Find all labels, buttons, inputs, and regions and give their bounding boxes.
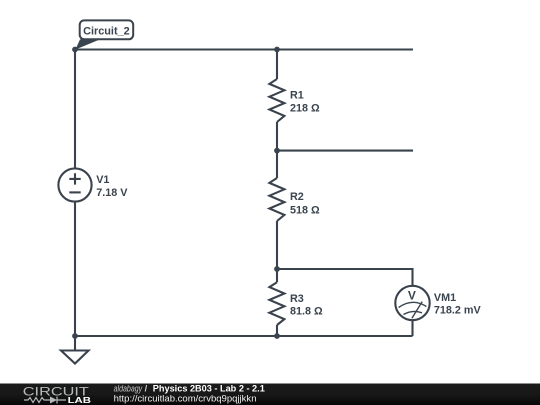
- footer bar: [0, 384, 540, 405]
- node R3 bottom: [274, 333, 280, 339]
- node top-left: [72, 47, 78, 53]
- callout Circuit_2 box: [80, 20, 134, 39]
- wire row2 rail: [277, 150, 413, 152]
- svg-text:V1: V1: [96, 174, 109, 186]
- svg-text:7.18 V: 7.18 V: [96, 187, 128, 199]
- wire R2-R3 link: [276, 221, 278, 282]
- V1 plus sign: [69, 173, 80, 184]
- wire left vertical lower (V1 bottom to ground rail): [74, 202, 76, 336]
- junction node dots: [72, 47, 280, 339]
- svg-text:718.2 mV: 718.2 mV: [434, 305, 482, 317]
- svg-text:Physics 2B03 - Lab 2 - 2.1: Physics 2B03 - Lab 2 - 2.1: [153, 384, 265, 394]
- footer logo diode triangle: [50, 397, 57, 404]
- wire R1 top lead: [276, 50, 278, 80]
- resistor R1: [269, 79, 284, 122]
- svg-text:V: V: [408, 289, 416, 303]
- svg-text:R3: R3: [290, 293, 304, 305]
- wire R3 bottom lead: [276, 325, 278, 336]
- node R1 top: [274, 47, 280, 53]
- VM1 needle: [412, 302, 422, 319]
- VM1 meter scale arcs: [399, 302, 427, 319]
- callout Circuit_2 tail: [76, 39, 101, 49]
- wire row3 to voltmeter: [277, 269, 413, 286]
- svg-text:VM1: VM1: [434, 292, 456, 304]
- voltmeter VM1 circle: [395, 286, 429, 320]
- wire R1-R2 link: [276, 122, 278, 178]
- footer logo resistor-diode line: [24, 397, 66, 404]
- V1 minus sign: [69, 191, 80, 193]
- svg-text:LAB: LAB: [68, 395, 91, 405]
- svg-text:R2: R2: [290, 191, 304, 203]
- voltage source V1 circle: [58, 168, 91, 201]
- wire left vertical upper (node A to V1 top): [74, 50, 76, 169]
- svg-text:/: /: [145, 384, 148, 394]
- svg-text:R1: R1: [290, 89, 304, 101]
- node R1-R2: [274, 148, 280, 154]
- svg-text:Circuit_2: Circuit_2: [83, 25, 130, 37]
- wire bottom rail: [75, 335, 413, 337]
- wire voltmeter bottom lead: [411, 320, 413, 336]
- resistor R3: [269, 282, 284, 325]
- node R2-R3: [274, 266, 280, 272]
- svg-text:http://circuitlab.com/crvbq9pq: http://circuitlab.com/crvbq9pqjjkkn: [114, 393, 257, 403]
- ground symbol: [61, 336, 89, 364]
- svg-text:518 Ω: 518 Ω: [290, 205, 320, 217]
- wire top rail: [75, 48, 413, 50]
- svg-text:aldabagy: aldabagy: [114, 384, 144, 394]
- resistor R2: [269, 178, 284, 221]
- svg-text:218 Ω: 218 Ω: [290, 103, 320, 115]
- node ground: [72, 333, 78, 339]
- svg-text:81.8 Ω: 81.8 Ω: [290, 306, 323, 318]
